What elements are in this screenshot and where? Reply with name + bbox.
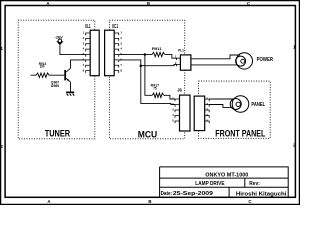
svg-text:XC1: XC1 — [112, 24, 118, 30]
svg-text:R911: R911 — [152, 47, 162, 51]
svg-text:TUNER: TUNER — [45, 129, 71, 139]
svg-text:FRONT PANEL: FRONT PANEL — [215, 128, 266, 138]
svg-text:POWER: POWER — [257, 57, 274, 63]
svg-text:A960: A960 — [51, 84, 60, 88]
svg-text:Date:: Date: — [161, 191, 173, 197]
svg-text:PANEL: PANEL — [251, 102, 265, 108]
svg-text:Rev:: Rev: — [249, 181, 260, 187]
svg-text:25-Sep-2009: 25-Sep-2009 — [173, 191, 213, 197]
svg-text:B: B — [147, 1, 150, 6]
svg-text:B: B — [148, 199, 151, 204]
svg-text:XL1: XL1 — [85, 24, 91, 30]
svg-text:J6: J6 — [177, 87, 182, 92]
svg-text:ONKYO MT-1000: ONKYO MT-1000 — [205, 173, 248, 179]
svg-text:PL1: PL1 — [178, 49, 184, 53]
svg-text:LAMP DRIVE: LAMP DRIVE — [195, 181, 225, 187]
svg-text:MCU: MCU — [138, 130, 158, 140]
svg-text:Hiroshi Kitaguchi: Hiroshi Kitaguchi — [236, 191, 287, 197]
svg-text:-26V: -26V — [55, 35, 64, 39]
svg-text:330: 330 — [40, 64, 45, 68]
svg-text:75: 75 — [153, 87, 156, 91]
